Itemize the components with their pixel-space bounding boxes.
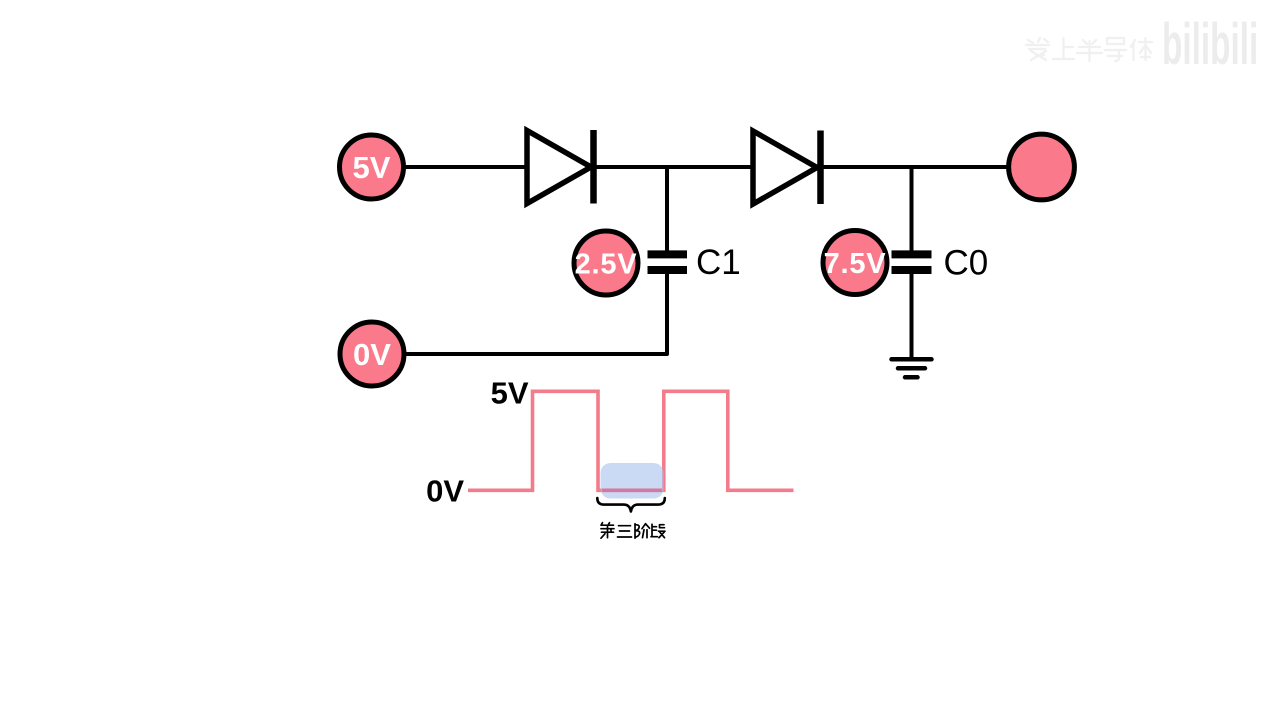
terminal 0V input	[340, 322, 404, 386]
svg-text:7.5V: 7.5V	[824, 248, 887, 280]
svg-text:0V: 0V	[426, 474, 464, 509]
caption 第三阶段 (drawn glyphs)	[601, 523, 665, 539]
svg-text:C0: C0	[944, 244, 989, 283]
svg-text:C1: C1	[696, 243, 741, 282]
diode D1 cathode bar	[590, 130, 597, 204]
wire: diode D2 cathode to output terminal	[823, 165, 1008, 169]
node label circle 2.5V	[574, 231, 638, 295]
diode D2 cathode bar	[817, 131, 824, 205]
阶	[635, 524, 650, 539]
svg-text:5V: 5V	[491, 376, 529, 411]
node label circle 7.5V	[823, 231, 887, 295]
diode D1 triangle	[527, 131, 591, 204]
capacitor C1 plates	[648, 254, 688, 270]
svg-text:2.5V: 2.5V	[575, 249, 638, 281]
wire: capacitor C0 bottom plate to ground	[910, 274, 914, 359]
svg-text:0V: 0V	[353, 337, 391, 372]
waveform segment under highlight	[602, 488, 662, 492]
capacitor C0 plates	[892, 254, 932, 270]
waveform square wave trace	[468, 391, 794, 490]
output terminal circle	[1009, 134, 1075, 200]
svg-text:bilibili: bilibili	[1162, 13, 1258, 78]
highlight region (third stage)	[601, 463, 664, 499]
wire: 5V terminal to diode D1 anode	[404, 165, 528, 169]
段	[651, 524, 665, 538]
terminal 5V input	[340, 135, 404, 199]
watermark bilibili logo	[1162, 13, 1258, 78]
三	[618, 526, 632, 537]
svg-text:5V: 5V	[353, 150, 391, 185]
diode D2 triangle	[753, 131, 817, 204]
brace under third stage	[597, 498, 665, 512]
wire: capacitor C1 bottom plate to 0V terminal	[406, 274, 667, 354]
watermark text 爱上半导体 (faint gray glyph blocks)	[1026, 38, 1152, 61]
第	[601, 523, 614, 539]
wire: diode D1 cathode to diode D2 anode	[596, 165, 754, 169]
ground	[892, 359, 932, 377]
wire: node to capacitor C0 top plate	[910, 165, 914, 251]
wire: node to capacitor C1 top plate	[665, 165, 669, 251]
